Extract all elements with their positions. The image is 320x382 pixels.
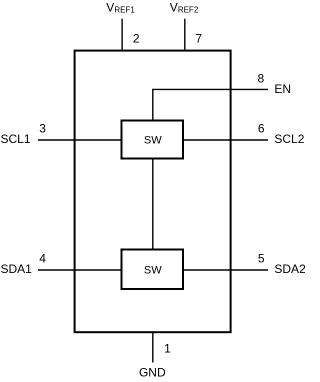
svg-text:4: 4 xyxy=(39,251,46,265)
svg-text:5: 5 xyxy=(258,251,265,265)
svg-text:GND: GND xyxy=(139,365,166,379)
svg-text:SCL1: SCL1 xyxy=(1,132,31,146)
svg-text:3: 3 xyxy=(39,121,46,135)
svg-text:6: 6 xyxy=(258,121,265,135)
svg-text:SDA2: SDA2 xyxy=(274,262,305,276)
svg-text:VREF1: VREF1 xyxy=(106,0,135,14)
svg-text:SW: SW xyxy=(144,264,162,276)
svg-text:1: 1 xyxy=(164,342,171,356)
svg-text:8: 8 xyxy=(257,72,264,86)
svg-text:EN: EN xyxy=(274,82,291,96)
svg-text:7: 7 xyxy=(195,32,202,46)
svg-text:2: 2 xyxy=(133,32,140,46)
svg-text:VREF2: VREF2 xyxy=(170,0,199,14)
svg-text:SCL2: SCL2 xyxy=(274,132,304,146)
svg-text:SW: SW xyxy=(144,135,162,147)
svg-text:SDA1: SDA1 xyxy=(1,262,33,276)
